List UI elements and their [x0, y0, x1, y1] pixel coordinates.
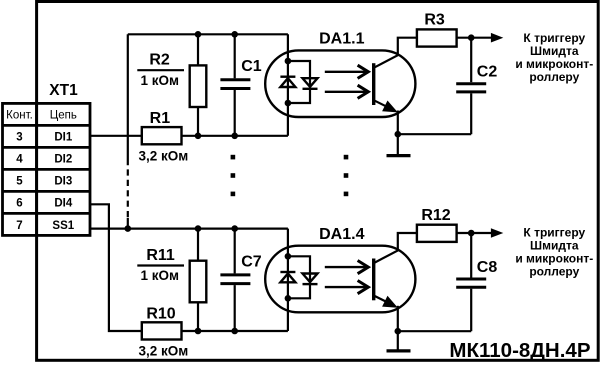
svg-text:6: 6 [16, 197, 22, 209]
svg-text:К триггеру: К триггеру [523, 31, 585, 45]
svg-text:и микроконт-: и микроконт- [515, 57, 593, 71]
svg-text:4: 4 [16, 153, 23, 165]
wire DI1 from table to R1 [90, 135, 142, 137]
wire R1 output to optocoupler [182, 135, 288, 137]
DA1.4 LED pair loop wire [288, 256, 310, 298]
svg-text:DI1: DI1 [54, 131, 73, 143]
junction dot emitter/C8 [395, 328, 402, 335]
emitter down wire [397, 111, 399, 155]
junction dot emitter/C2 [395, 131, 402, 138]
resistor R12 [417, 225, 457, 242]
junction dot output / C2 [468, 34, 475, 41]
svg-text:DI2: DI2 [54, 153, 72, 165]
svg-text:R10: R10 [146, 305, 175, 322]
DA1.1 LED pair loop wire [288, 61, 310, 103]
wire SS1 rail [90, 228, 288, 230]
junction dots channel 1 rail [195, 31, 202, 38]
ellipsis dots left column [231, 155, 236, 196]
svg-text:DI3: DI3 [54, 175, 72, 187]
svg-text:5: 5 [16, 175, 23, 187]
DA1.4 light arrow 1 [325, 261, 369, 274]
wire C7 bottom stub [234, 285, 236, 331]
optocoupler DA1.4 body [265, 246, 415, 313]
output text channel 1 [515, 31, 593, 84]
svg-text:Цепь: Цепь [50, 109, 77, 121]
resistor R3 [417, 29, 457, 46]
DA1.1 LED pin dots [285, 58, 292, 65]
DA1.1 phototransistor base bar [372, 63, 375, 105]
svg-text:1 кОм: 1 кОм [141, 73, 180, 88]
DA1.4 phototransistor base bar [372, 259, 375, 301]
optocoupler DA1.1 body [265, 50, 415, 117]
output arrow channel 1 [491, 33, 503, 43]
output wire channel 1 [457, 37, 492, 39]
emitter down wire ch4 [397, 306, 399, 350]
DA1.4 emitter wire [374, 296, 390, 304]
svg-text:C7: C7 [241, 253, 262, 270]
svg-text:C8: C8 [477, 259, 498, 276]
svg-text:3: 3 [16, 131, 22, 143]
wire R2 top stub [197, 34, 199, 65]
svg-text:роллеру: роллеру [529, 264, 579, 278]
junction dots channel 4 input line [195, 328, 202, 335]
wire C1 bottom stub [234, 90, 236, 136]
svg-text:R1: R1 [150, 110, 171, 127]
connector XT1 table [3, 103, 91, 235]
capacitor C8 [398, 233, 471, 331]
svg-text:Конт.: Конт. [6, 109, 33, 121]
junction dots channel 1 input line [195, 133, 202, 140]
svg-text:R2: R2 [149, 52, 170, 69]
svg-text:7: 7 [16, 220, 22, 232]
svg-text:1 кОм: 1 кОм [141, 268, 180, 283]
DA1.1 light arrow 1 [325, 65, 369, 78]
DA1.4 collector wire to R12 [374, 233, 417, 263]
output arrow channel 4 [491, 228, 503, 238]
capacitor C7 [220, 275, 250, 284]
resistor R2 [190, 65, 207, 107]
DA1.4 light arrow 2 [325, 281, 369, 294]
DA1.1 collector wire to R3 [374, 38, 417, 68]
svg-text:К триггеру: К триггеру [523, 225, 585, 239]
DA1.1 diode VD-down (right) [303, 78, 318, 89]
dashed repetition line [127, 136, 129, 229]
output wire channel 4 [457, 232, 492, 234]
capacitor C1 [220, 80, 250, 89]
svg-text:R12: R12 [421, 207, 450, 224]
svg-text:3,2 кОм: 3,2 кОм [139, 344, 189, 359]
wire R10 output to optocoupler [182, 330, 288, 332]
svg-text:C1: C1 [241, 58, 262, 75]
DA1.4 LED pin dots [285, 253, 292, 260]
wire branch up to top rail [127, 34, 129, 136]
DA1.1 light arrow 2 [325, 85, 369, 98]
svg-text:SS1: SS1 [52, 220, 74, 232]
svg-text:ХТ1: ХТ1 [49, 82, 78, 99]
ground channel 1 [387, 154, 411, 157]
DA1.4 diode VD-down (right) [303, 274, 318, 285]
ellipsis dots right column [344, 155, 349, 196]
wire R11 top stub [197, 229, 199, 261]
resistor R10 [142, 322, 182, 339]
junction dots channel 4 rail [125, 225, 132, 232]
svg-text:R11: R11 [146, 247, 175, 264]
capacitor C2 [398, 38, 471, 135]
svg-text:DA1.4: DA1.4 [319, 226, 364, 243]
wire R2 bottom stub [197, 107, 199, 136]
DA1.4 diode VD-up (left) [280, 272, 295, 282]
DA1.1 emitter wire [374, 100, 390, 108]
svg-text:3,2 кОм: 3,2 кОм [139, 148, 189, 163]
wire C1 top stub [234, 34, 236, 78]
resistor R11 [190, 261, 207, 303]
svg-text:и микроконт-: и микроконт- [515, 251, 593, 265]
wire top rail [128, 33, 288, 35]
svg-text:DA1.1: DA1.1 [319, 31, 364, 48]
svg-text:DI4: DI4 [54, 197, 73, 209]
wire LED left lead [287, 34, 289, 136]
junction dot output / C8 [468, 230, 475, 237]
wire C7 top stub [234, 229, 236, 274]
svg-text:МК110-8ДН.4Р: МК110-8ДН.4Р [449, 339, 590, 362]
wire R11 bottom stub [197, 302, 199, 331]
DA1.1 diode VD-up (left) [280, 77, 295, 87]
resistor R1 [142, 127, 182, 144]
output text channel 4 [515, 225, 593, 278]
wire DI4 from table down to R10 [90, 204, 142, 331]
ground channel 4 [387, 349, 411, 352]
svg-text:Шмидта: Шмидта [530, 44, 579, 58]
wire LED left lead ch4 [287, 229, 289, 331]
svg-text:роллеру: роллеру [529, 70, 579, 84]
svg-text:C2: C2 [477, 64, 498, 81]
svg-text:Шмидта: Шмидта [530, 238, 579, 252]
svg-text:R3: R3 [424, 12, 445, 29]
